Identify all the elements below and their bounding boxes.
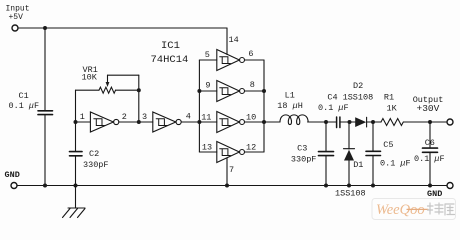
- diode D1: [344, 122, 355, 186]
- svg-text:1: 1: [80, 112, 85, 122]
- svg-text:GND: GND: [427, 189, 442, 199]
- svg-text:1K: 1K: [387, 104, 398, 114]
- ground terminal GND left: [11, 183, 17, 189]
- wire pin14 VCC: [226, 28, 228, 55]
- inductor L1: [280, 115, 308, 125]
- svg-text:7: 7: [229, 165, 234, 175]
- svg-text:0.1 μF: 0.1 μF: [318, 103, 349, 113]
- wire C4 to D2: [340, 121, 355, 123]
- svg-text:D2: D2: [353, 81, 363, 91]
- svg-text:D1: D1: [353, 160, 363, 170]
- svg-text:12: 12: [246, 143, 256, 153]
- ground symbol: [63, 186, 86, 218]
- svg-text:2: 2: [122, 112, 127, 122]
- op-amp U1C inverter pins 5-6: [199, 50, 264, 71]
- svg-text:5: 5: [205, 50, 210, 60]
- potentiometer VR1: [76, 75, 139, 122]
- svg-text:13: 13: [202, 143, 212, 153]
- node bus pin9: [197, 89, 201, 93]
- wire pin7 GND: [226, 158, 228, 186]
- op-amp U1B inverter pins 3-4: [153, 112, 181, 132]
- svg-text:10K: 10K: [82, 73, 98, 83]
- svg-text:3: 3: [142, 112, 147, 122]
- wire C2 to rail: [75, 156, 77, 186]
- svg-text:IC1: IC1: [161, 40, 180, 52]
- wire pin1 vertical: [75, 90, 77, 151]
- capacitor C1: [38, 111, 53, 115]
- svg-text:330pF: 330pF: [291, 154, 317, 164]
- wire pin2 to pin3: [119, 121, 153, 123]
- svg-text:C5: C5: [383, 140, 393, 150]
- node bus pin10: [262, 120, 266, 124]
- wire C1 upper branch: [44, 28, 46, 110]
- node rail C6: [428, 184, 432, 188]
- label IC1 74HC14: [151, 40, 189, 66]
- output terminal +30V: [447, 119, 453, 125]
- op-amp U1A inverter pins 1-2: [90, 112, 118, 132]
- wire left input bus: [198, 60, 200, 152]
- svg-text:74HC14: 74HC14: [151, 54, 189, 66]
- capacitor C2: [70, 152, 83, 156]
- svg-text:9: 9: [205, 80, 210, 90]
- node rail pin7: [225, 184, 229, 188]
- svg-text:Input: Input: [6, 4, 30, 13]
- node C5 junction: [371, 120, 375, 124]
- capacitor C4: [337, 117, 340, 128]
- node feedback junction: [137, 120, 141, 124]
- op-amp U1D inverter pins 9-8: [199, 81, 264, 102]
- wire R1 to output: [404, 121, 447, 123]
- svg-text:11: 11: [201, 113, 211, 123]
- svg-text:GND: GND: [5, 170, 20, 180]
- node bus pin11: [197, 120, 201, 124]
- svg-text:C4: C4: [327, 92, 337, 102]
- svg-text:1SS108: 1SS108: [343, 92, 374, 102]
- label Input +5V: [6, 4, 30, 22]
- input terminal +5V: [12, 25, 18, 31]
- watermark WeeQoo box: [372, 199, 456, 220]
- svg-text:18 μH: 18 μH: [277, 101, 303, 111]
- capacitor C5: [366, 122, 381, 186]
- node rail C3: [324, 184, 328, 188]
- op-amp U1F inverter pins 13-12: [199, 142, 264, 163]
- node VR1 right: [137, 88, 141, 92]
- svg-text:0.1 μF: 0.1 μF: [9, 101, 40, 111]
- node rail C1: [43, 184, 47, 188]
- svg-text:8: 8: [250, 80, 255, 90]
- wire bottom ground rail: [17, 185, 447, 187]
- capacitor C3: [319, 122, 334, 186]
- resistor R1: [381, 119, 403, 126]
- svg-text:0.1 μF: 0.1 μF: [380, 159, 411, 169]
- node rail C5: [371, 184, 375, 188]
- watermark WeeQoo text: [376, 202, 425, 218]
- wire pin4 to input bus: [181, 121, 199, 123]
- node C3 junction: [324, 120, 328, 124]
- svg-text:R1: R1: [384, 92, 394, 102]
- node rail D1: [347, 184, 351, 188]
- svg-text:C2: C2: [89, 149, 99, 159]
- svg-text:14: 14: [229, 35, 239, 45]
- wire top +5V rail: [18, 27, 227, 29]
- node top rail / C1: [43, 26, 47, 30]
- svg-text:0.1 μF: 0.1 μF: [414, 154, 445, 164]
- node bus pin8: [262, 89, 266, 93]
- svg-text:+30V: +30V: [417, 103, 440, 114]
- svg-text:C6: C6: [425, 138, 435, 148]
- wire pin1 input stub: [76, 121, 91, 123]
- svg-text:+5V: +5V: [9, 13, 24, 22]
- diode D2: [355, 117, 366, 127]
- wire D2 to R1: [367, 121, 381, 123]
- svg-text:L1: L1: [285, 91, 295, 101]
- wire L1 to C4: [308, 121, 337, 123]
- svg-text:330pF: 330pF: [83, 160, 109, 170]
- svg-text:C3: C3: [297, 143, 307, 153]
- svg-text:6: 6: [248, 49, 253, 59]
- svg-text:C1: C1: [19, 91, 29, 101]
- svg-text:WeeQoo: WeeQoo: [376, 202, 425, 218]
- node pin1 junction: [74, 120, 78, 124]
- capacitor C6: [423, 122, 438, 186]
- svg-text:1SS108: 1SS108: [335, 189, 366, 199]
- wire bus to L1: [264, 121, 280, 123]
- watermark CJK glyphs: [428, 203, 455, 215]
- svg-text:4: 4: [186, 111, 191, 121]
- watermark Qoo strikethrough: [407, 208, 428, 210]
- node rail C2/ground: [74, 184, 78, 188]
- ground terminal GND right: [447, 183, 453, 189]
- wire C1 lower branch: [44, 115, 46, 186]
- svg-text:10: 10: [246, 113, 256, 123]
- wire right output bus: [263, 60, 265, 152]
- node C6 junction: [428, 120, 432, 124]
- op-amp U1E inverter pins 11-10: [199, 112, 264, 133]
- node D1 junction: [348, 120, 352, 124]
